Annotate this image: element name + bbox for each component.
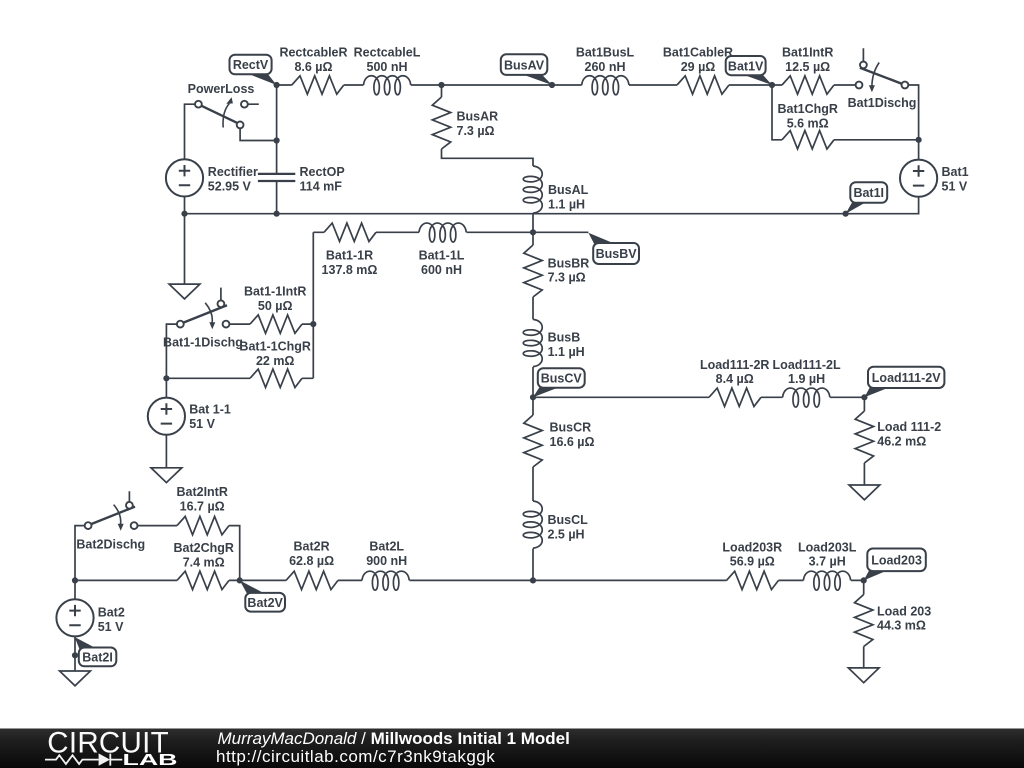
- svg-text:Bat2Dischg: Bat2Dischg: [76, 538, 145, 552]
- svg-text:Load203R: Load203R: [722, 540, 782, 554]
- svg-text:29 µΩ: 29 µΩ: [681, 60, 716, 74]
- svg-text:Bat1-1ChgR: Bat1-1ChgR: [239, 340, 311, 354]
- svg-text:Bat2ChgR: Bat2ChgR: [173, 541, 233, 555]
- svg-text:LAB: LAB: [123, 752, 178, 768]
- svg-text:BusAR: BusAR: [457, 110, 499, 124]
- svg-text:Bat2R: Bat2R: [294, 540, 330, 554]
- svg-text:8.6 µΩ: 8.6 µΩ: [294, 60, 332, 74]
- svg-text:Bat2L: Bat2L: [369, 540, 404, 554]
- svg-text:114 mF: 114 mF: [300, 180, 343, 194]
- svg-text:Bat1CableR: Bat1CableR: [663, 46, 733, 60]
- svg-text:56.9 µΩ: 56.9 µΩ: [730, 555, 775, 569]
- svg-text:Load111-2V: Load111-2V: [872, 371, 941, 385]
- svg-text:8.4 µΩ: 8.4 µΩ: [716, 372, 754, 386]
- svg-text:600 nH: 600 nH: [421, 263, 462, 277]
- svg-text:Bat 1-1: Bat 1-1: [189, 403, 231, 417]
- svg-text:51 V: 51 V: [942, 180, 968, 194]
- svg-text:RectcableR: RectcableR: [279, 46, 347, 60]
- svg-text:46.2 mΩ: 46.2 mΩ: [877, 435, 926, 449]
- svg-text:260 nH: 260 nH: [585, 60, 626, 74]
- svg-text:MurrayMacDonald / Millwoods In: MurrayMacDonald / Millwoods Initial 1 Mo…: [218, 729, 570, 748]
- svg-text:2.5 µH: 2.5 µH: [548, 528, 585, 542]
- svg-text:52.95 V: 52.95 V: [208, 180, 252, 194]
- svg-text:Bat2IntR: Bat2IntR: [176, 485, 227, 499]
- svg-text:44.3 mΩ: 44.3 mΩ: [877, 619, 926, 633]
- svg-text:Load111-2R: Load111-2R: [700, 358, 769, 372]
- svg-text:16.6 µΩ: 16.6 µΩ: [550, 435, 595, 449]
- svg-text:Bat1BusL: Bat1BusL: [576, 46, 635, 60]
- svg-text:5.6 mΩ: 5.6 mΩ: [787, 116, 829, 130]
- svg-text:1.1 µH: 1.1 µH: [548, 198, 585, 212]
- svg-text:Bat1: Bat1: [942, 165, 969, 179]
- svg-text:1.1 µH: 1.1 µH: [548, 345, 585, 359]
- svg-text:12.5 µΩ: 12.5 µΩ: [785, 60, 830, 74]
- svg-text:3.7 µH: 3.7 µH: [809, 555, 846, 569]
- svg-text:Load111-2L: Load111-2L: [773, 358, 841, 372]
- svg-text:Load203L: Load203L: [798, 540, 857, 554]
- svg-text:137.8 mΩ: 137.8 mΩ: [322, 263, 378, 277]
- svg-text:Bat2: Bat2: [98, 606, 125, 620]
- svg-text:BusAV: BusAV: [504, 58, 545, 72]
- svg-text:Bat1-1IntR: Bat1-1IntR: [244, 285, 307, 299]
- svg-text:BusCL: BusCL: [548, 513, 589, 527]
- svg-text:Bat1ChgR: Bat1ChgR: [777, 102, 837, 116]
- svg-text:500 nH: 500 nH: [367, 60, 408, 74]
- svg-text:Load 203: Load 203: [877, 604, 931, 618]
- svg-text:Bat2I: Bat2I: [82, 651, 113, 665]
- svg-text:Load 111-2: Load 111-2: [877, 420, 941, 434]
- svg-text:16.7 µΩ: 16.7 µΩ: [180, 499, 225, 513]
- svg-text:BusBV: BusBV: [596, 247, 638, 261]
- svg-text:BusB: BusB: [548, 331, 581, 345]
- svg-text:Rectifier: Rectifier: [208, 165, 258, 179]
- svg-text:BusCV: BusCV: [541, 372, 583, 386]
- svg-text:RectOP: RectOP: [300, 165, 345, 179]
- svg-text:Bat1IntR: Bat1IntR: [782, 46, 833, 60]
- svg-text:22 mΩ: 22 mΩ: [256, 354, 295, 368]
- svg-text:Bat1I: Bat1I: [853, 186, 884, 200]
- svg-text:Bat2V: Bat2V: [247, 596, 283, 610]
- svg-text:RectcableL: RectcableL: [354, 46, 421, 60]
- svg-text:Bat1Dischg: Bat1Dischg: [848, 96, 917, 110]
- svg-text:Bat1V: Bat1V: [728, 59, 764, 73]
- svg-text:BusCR: BusCR: [550, 421, 592, 435]
- svg-text:51 V: 51 V: [98, 620, 124, 634]
- svg-text:BusAL: BusAL: [548, 183, 589, 197]
- svg-text:BusBR: BusBR: [548, 256, 590, 270]
- svg-text:Bat1-1Dischg: Bat1-1Dischg: [163, 335, 243, 349]
- svg-text:900 nH: 900 nH: [366, 554, 407, 568]
- svg-text:50 µΩ: 50 µΩ: [258, 299, 293, 313]
- svg-text:51 V: 51 V: [189, 417, 215, 431]
- svg-text:7.4 mΩ: 7.4 mΩ: [183, 556, 225, 570]
- svg-text:PowerLoss: PowerLoss: [188, 82, 255, 96]
- svg-text:7.3 µΩ: 7.3 µΩ: [548, 271, 586, 285]
- svg-text:Load203: Load203: [871, 554, 922, 568]
- svg-text:Bat1-1R: Bat1-1R: [326, 249, 373, 263]
- svg-text:7.3 µΩ: 7.3 µΩ: [457, 124, 495, 138]
- svg-text:1.9 µH: 1.9 µH: [788, 372, 825, 386]
- svg-text:Bat1-1L: Bat1-1L: [419, 249, 465, 263]
- svg-text:http://circuitlab.com/c7r3nk9t: http://circuitlab.com/c7r3nk9takggk: [216, 747, 495, 766]
- svg-text:RectV: RectV: [233, 58, 269, 72]
- svg-text:62.8 µΩ: 62.8 µΩ: [289, 554, 334, 568]
